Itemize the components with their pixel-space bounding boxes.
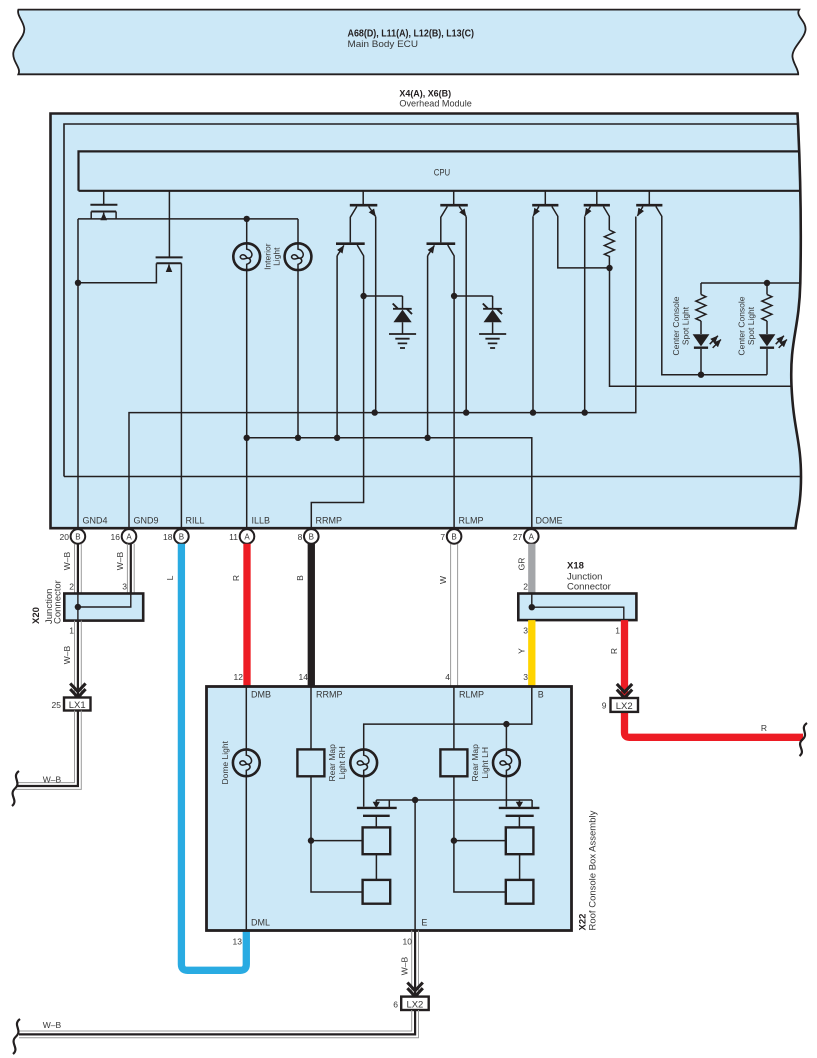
wire W-B pin16 to X20: [127, 544, 134, 594]
lamp L2 Interior Light: [285, 243, 312, 270]
svg-text:Light RH: Light RH: [337, 746, 347, 779]
pin 7 B: [440, 529, 461, 544]
svg-text:11: 11: [229, 532, 238, 542]
wire LED bottom bus: [662, 374, 767, 376]
svg-text:B: B: [295, 575, 305, 581]
svg-text:Roof Console Box Assembly: Roof Console Box Assembly: [588, 810, 599, 930]
wire W-B E/10 to LX2: [412, 931, 419, 997]
pin 11 A: [229, 529, 254, 544]
pin 16 A: [111, 529, 137, 544]
CPU box U1: [79, 151, 801, 190]
wire junction down to right bus: [610, 268, 792, 386]
pin 27 A: [513, 529, 539, 544]
svg-text:A: A: [126, 533, 132, 542]
pin 20 B: [60, 529, 86, 544]
MOSFET Q11 (LH): [499, 800, 540, 827]
svg-text:B: B: [451, 533, 456, 542]
node Q8 emitter / GND9 bus: [582, 409, 588, 415]
torn mark bottom left: [13, 1019, 20, 1054]
wire LED feed bus: [701, 282, 800, 284]
wire W (white) pin7 to RLMP 4: [451, 544, 458, 687]
pin 18 B: [163, 529, 189, 544]
transistor Q5 Q6 darlington pair 2: [427, 191, 468, 527]
svg-text:3: 3: [523, 672, 528, 682]
svg-text:W–B: W–B: [43, 1020, 62, 1030]
resistor R1: [604, 230, 614, 268]
node Q3 emitter / GND9 bus: [372, 409, 378, 415]
svg-text:27: 27: [513, 532, 523, 542]
svg-text:GND4: GND4: [83, 516, 108, 526]
svg-text:12: 12: [234, 672, 244, 682]
svg-text:CPU: CPU: [434, 168, 451, 179]
node Q7 emitter / GND9 bus: [530, 409, 536, 415]
svg-text:4: 4: [445, 672, 450, 682]
svg-text:B: B: [75, 533, 80, 542]
wire DMB to dome light: [245, 687, 247, 750]
chevron arrow to LX2: [617, 684, 632, 698]
svg-text:Connector: Connector: [53, 580, 64, 624]
connector square RLMP: [440, 749, 467, 776]
lamp L5 Rear Map Light LH: [493, 749, 520, 776]
node X18 internal junction: [529, 604, 535, 610]
svg-text:8: 8: [298, 532, 303, 542]
connector square RRMP: [297, 749, 324, 776]
wire L (blue) pin18 to DML 13: [181, 544, 246, 971]
transistor Q3 Q4 darlington pair 1: [311, 191, 377, 527]
wire gate bus to E: [376, 800, 532, 931]
pin 8 B: [298, 529, 319, 544]
node Q4 / ILLB bus: [334, 435, 340, 441]
wire GND4 left vertical: [77, 219, 79, 528]
wire Y (yellow) X18 pin3 to B 3: [528, 620, 535, 686]
svg-text:Rear Map: Rear Map: [470, 744, 480, 782]
wire Q2 source to GND4 node: [78, 271, 156, 283]
wire dome light to DML: [245, 776, 247, 930]
wire CPU to Q2 gate: [168, 191, 170, 257]
ground symbol G2: [479, 334, 506, 348]
transistor Q9: [636, 191, 701, 375]
svg-text:14: 14: [299, 672, 309, 682]
svg-text:GND9: GND9: [134, 516, 159, 526]
wire RH squares link: [375, 854, 377, 880]
LED branch 2: resistor R3: [762, 283, 772, 334]
svg-text:A: A: [529, 533, 535, 542]
LED branch 1: resistor R2: [696, 283, 706, 334]
svg-text:Light LH: Light LH: [480, 747, 490, 779]
zener diode D2: [451, 293, 502, 334]
svg-text:6: 6: [393, 1000, 398, 1010]
svg-text:2: 2: [523, 582, 528, 592]
wire GR (gray) pin27 to X18: [528, 544, 535, 594]
wire RRMP down: [310, 687, 312, 750]
svg-text:R: R: [231, 575, 241, 581]
svg-text:3: 3: [523, 626, 528, 636]
LED D4 Center Console Spot Light: [759, 334, 787, 374]
svg-text:Rear Map: Rear Map: [327, 744, 337, 782]
connector X18 Junction Connector: [518, 594, 636, 621]
svg-text:W–B: W–B: [115, 551, 125, 570]
svg-text:B: B: [179, 533, 184, 542]
svg-text:GR: GR: [517, 558, 527, 571]
zener diode D1: [360, 293, 412, 334]
wire RH lamp to mosfet: [363, 776, 365, 807]
connector LX2 (9): [611, 698, 639, 712]
svg-text:DMB: DMB: [251, 690, 271, 700]
chevron arrow to LX1: [70, 683, 85, 697]
lamp L1 Interior Light: [233, 243, 260, 270]
connector square RH lower: [363, 880, 391, 904]
node LED bottom junction: [698, 372, 704, 378]
connector square LH lower: [506, 880, 534, 904]
node R1/Q7 junction: [606, 265, 612, 271]
svg-text:W–B: W–B: [62, 551, 72, 570]
svg-text:DOME: DOME: [536, 516, 563, 526]
svg-text:Overhead Module: Overhead Module: [399, 99, 471, 110]
svg-text:RRMP: RRMP: [316, 516, 343, 526]
svg-text:R: R: [761, 723, 767, 733]
node lamp L1 / drain bus junction: [244, 216, 250, 222]
svg-text:LX1: LX1: [69, 700, 86, 711]
wire LH squares link: [519, 854, 521, 880]
svg-text:Center Console: Center Console: [671, 296, 681, 355]
chevron arrow to LX2: [407, 983, 422, 997]
svg-text:W–B: W–B: [43, 775, 62, 785]
wire X18 internal link: [532, 594, 624, 621]
ground symbol G1: [389, 334, 416, 348]
svg-text:Light: Light: [272, 247, 282, 266]
svg-text:LX2: LX2: [616, 701, 633, 712]
svg-text:16: 16: [111, 532, 121, 542]
wire lamp L1 top: [246, 219, 248, 244]
MOSFET Q1: [90, 205, 117, 219]
node Q5 emitter / GND9 bus: [463, 409, 469, 415]
svg-text:X20: X20: [31, 607, 42, 624]
LED D3 Center Console Spot Light: [693, 334, 721, 374]
node B bus / lamp L5 junction: [503, 721, 509, 727]
svg-text:25: 25: [52, 700, 62, 710]
svg-text:R: R: [609, 648, 619, 654]
svg-text:RLMP: RLMP: [459, 516, 484, 526]
svg-text:B: B: [309, 533, 314, 542]
wire X20 internal links: [78, 594, 131, 621]
svg-text:W: W: [438, 576, 448, 584]
wire lamp L2 top: [297, 219, 299, 244]
svg-text:B: B: [538, 690, 544, 700]
svg-text:20: 20: [60, 532, 70, 542]
wire ILLB bus (horizontal): [247, 438, 532, 528]
svg-text:3: 3: [122, 582, 127, 592]
svg-text:Connector: Connector: [567, 582, 611, 593]
wire LH lamp drop: [505, 724, 507, 749]
connector LX2 (6): [401, 997, 429, 1010]
svg-text:Dome Light: Dome Light: [220, 740, 230, 784]
svg-text:1: 1: [615, 626, 620, 636]
lamp L3 Dome Light: [233, 749, 260, 776]
svg-text:RILL: RILL: [186, 516, 205, 526]
svg-text:E: E: [421, 918, 427, 928]
module X4/X6 Overhead Module outer box: [51, 114, 802, 529]
wire R (red) X18 pin1 to LX2 and right (torn): [625, 620, 804, 737]
svg-text:Y: Y: [517, 648, 527, 654]
node LED bus junction: [764, 280, 770, 286]
svg-text:9: 9: [602, 701, 607, 711]
torn mark left: [12, 771, 19, 806]
wire W-B pin20 to X20: [75, 544, 82, 594]
wire W-B LX2 to left (torn): [19, 1010, 419, 1038]
svg-text:LX2: LX2: [406, 999, 423, 1010]
connector banner Main Body ECU: [13, 10, 805, 75]
svg-text:RLMP: RLMP: [459, 690, 484, 700]
wire lamp L1 bottom to ILLB bus and pin 11: [246, 270, 248, 528]
svg-text:13: 13: [233, 937, 243, 947]
wire RLMP down: [453, 687, 455, 750]
svg-text:7: 7: [440, 532, 445, 542]
wire CPU to Q1 gate: [103, 191, 105, 204]
module inner border: [64, 124, 801, 477]
wire R (red) pin11 to DMB 12: [243, 544, 250, 687]
svg-text:DML: DML: [251, 918, 270, 928]
svg-text:ILLB: ILLB: [252, 516, 271, 526]
connector square RH upper: [363, 827, 391, 854]
svg-text:10: 10: [403, 937, 413, 947]
wire LH lamp to mosfet: [505, 776, 507, 807]
wire W-B X20 pin1 to LX1: [75, 621, 82, 698]
svg-text:A: A: [244, 533, 250, 542]
transistor Q8: [584, 191, 610, 413]
svg-text:W–B: W–B: [400, 956, 410, 975]
torn mark right (red wire): [800, 723, 808, 756]
node GND4 junction: [75, 280, 81, 286]
wire GND9 bus (horizontal): [129, 217, 636, 529]
svg-text:Center Console: Center Console: [736, 296, 746, 355]
wire Q1 drain bus to lamps: [78, 218, 298, 220]
MOSFET Q2: [156, 257, 183, 271]
MOSFET Q10 (RH): [357, 800, 397, 827]
wire lamp L2 bottom to ILLB bus: [297, 270, 299, 438]
wire B (black) pin8 to RRMP 14: [308, 544, 315, 687]
lamp L4 Rear Map Light RH: [350, 749, 377, 776]
wire W-B LX1 to left (torn): [16, 711, 81, 790]
wire RILL: Q2 drain down to pin 18: [180, 271, 182, 528]
node lamp L2 / ILLB bus: [295, 435, 301, 441]
transistor Q7: [532, 191, 609, 413]
svg-text:RRMP: RRMP: [316, 690, 343, 700]
node RLMP branch junction: [451, 837, 457, 843]
connector LX1: [64, 698, 91, 711]
svg-text:W–B: W–B: [62, 645, 72, 664]
node RRMP branch junction: [308, 837, 314, 843]
connector X20 Junction Connector: [64, 594, 143, 621]
svg-text:L: L: [165, 575, 175, 580]
node X20 internal junction: [75, 604, 81, 610]
svg-text:1: 1: [69, 626, 74, 636]
svg-text:X18: X18: [567, 561, 584, 572]
svg-text:Spot Light: Spot Light: [680, 306, 690, 345]
svg-text:Spot Light: Spot Light: [746, 306, 756, 345]
connector square LH upper: [506, 827, 534, 854]
svg-text:18: 18: [163, 532, 173, 542]
node lamp L1 / ILLB bus: [244, 435, 250, 441]
svg-text:2: 2: [69, 582, 74, 592]
node Q6 / ILLB bus: [424, 435, 430, 441]
wire B pin to lamps bus: [364, 687, 532, 750]
svg-text:Main Body ECU: Main Body ECU: [348, 39, 419, 50]
box X22 Roof Console Box Assembly: [207, 687, 572, 931]
node gate bus / E junction: [412, 797, 418, 803]
